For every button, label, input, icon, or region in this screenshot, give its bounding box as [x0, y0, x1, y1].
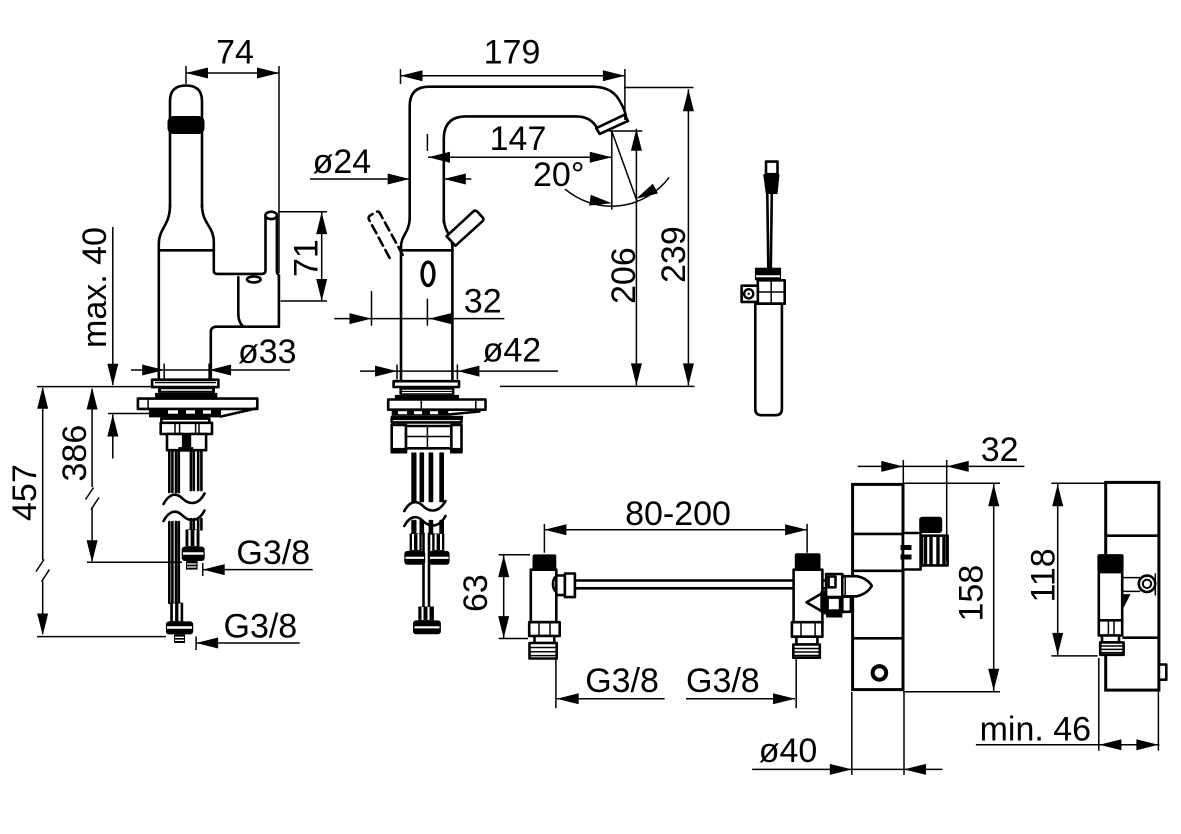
- svg-text:ø24: ø24: [313, 143, 372, 181]
- svg-text:74: 74: [216, 34, 254, 72]
- svg-text:ø33: ø33: [238, 333, 297, 371]
- svg-text:32: 32: [981, 431, 1019, 469]
- svg-text:206: 206: [605, 247, 643, 304]
- svg-text:71: 71: [288, 239, 326, 277]
- svg-text:32: 32: [464, 283, 502, 321]
- svg-text:80-200: 80-200: [625, 495, 731, 533]
- svg-text:G3/8: G3/8: [224, 608, 298, 646]
- svg-text:G3/8: G3/8: [585, 662, 659, 700]
- svg-text:ø42: ø42: [483, 332, 542, 370]
- svg-text:max. 40: max. 40: [76, 227, 114, 348]
- svg-text:179: 179: [484, 34, 541, 72]
- svg-text:118: 118: [1025, 548, 1063, 602]
- svg-text:386: 386: [56, 425, 94, 482]
- svg-text:158: 158: [953, 565, 991, 622]
- svg-text:20°: 20°: [533, 156, 584, 194]
- svg-text:ø40: ø40: [759, 732, 818, 770]
- svg-text:G3/8: G3/8: [236, 534, 310, 572]
- svg-text:457: 457: [6, 464, 44, 521]
- svg-text:G3/8: G3/8: [686, 662, 760, 700]
- svg-text:63: 63: [457, 574, 495, 612]
- svg-text:147: 147: [490, 120, 547, 158]
- svg-text:239: 239: [655, 226, 693, 283]
- svg-text:min. 46: min. 46: [980, 711, 1092, 749]
